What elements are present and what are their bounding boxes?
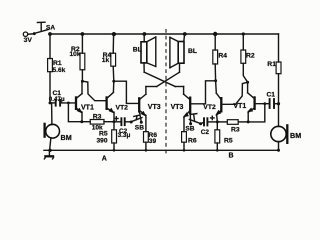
switch SA — [33, 22, 56, 35]
capacitor C2 right — [201, 116, 218, 136]
svg-text:VT3: VT3 — [171, 104, 184, 111]
resistor R4 1k — [102, 34, 116, 81]
transistor VT3 left — [139, 87, 161, 132]
svg-text:BL: BL — [133, 46, 142, 53]
capacitor C1 0.47u — [49, 90, 76, 107]
node junction R5 right/rail — [216, 149, 219, 152]
svg-text:3V: 3V — [24, 37, 33, 44]
node junction R2/VT1 collector — [81, 80, 84, 83]
wire cross connection left speaker to right VT3 — [144, 72, 175, 86]
node junction rail/SA/R1 — [48, 32, 52, 36]
node junction R1/C1/BM — [49, 101, 52, 104]
transistor VT2 right — [203, 81, 247, 122]
svg-text:R5: R5 — [224, 138, 233, 145]
node junction R6/rail — [145, 149, 148, 152]
wire terminal to switch — [28, 33, 34, 35]
microphone BM left — [45, 103, 72, 150]
resistor R2 right — [241, 32, 255, 82]
node battery terminal 3V — [23, 32, 32, 44]
svg-text:1k: 1k — [102, 57, 110, 64]
capacitor C2 3.3u polarized — [114, 117, 131, 139]
transistor VT1 — [76, 81, 94, 122]
node junction rail/R4 — [112, 32, 116, 36]
resistor R3 right — [217, 120, 248, 134]
resistor R6 39 — [144, 132, 158, 151]
svg-text:VT2: VT2 — [203, 104, 216, 111]
svg-text:R2: R2 — [246, 53, 255, 60]
node junction rail/BL left — [143, 32, 147, 36]
node junction R3/R5/VT2 emitter/C2 — [113, 120, 116, 123]
node junction VT1 emitter/R3 — [80, 120, 83, 123]
wire cross to left collector — [146, 86, 157, 88]
ground — [44, 150, 54, 159]
svg-text:C1: C1 — [267, 92, 276, 99]
node junction C1 right/R1/BM — [277, 102, 280, 105]
wire VT2 right collector to VT3 right base — [191, 81, 216, 104]
node junction VT1 right emitter/R3 — [247, 120, 250, 123]
svg-text:390: 390 — [97, 137, 108, 144]
wire feedback loop VT1 right — [248, 104, 265, 122]
resistor R4 right — [213, 32, 228, 81]
transistor VT3 right — [171, 87, 191, 132]
loudspeaker BL left — [133, 34, 156, 72]
resistor R3 10k — [82, 114, 114, 132]
svg-text:R4: R4 — [218, 52, 227, 59]
svg-text:C2: C2 — [201, 129, 210, 136]
wire cross connection right speaker to left VT3 — [157, 72, 180, 86]
svg-text:5.6k: 5.6k — [53, 67, 66, 74]
wire bottom ground rail — [44, 149, 279, 151]
transistor VT2 — [107, 81, 129, 122]
node junction BM/ground — [48, 149, 51, 152]
svg-text:B: B — [229, 153, 234, 160]
node junction R5/rail — [113, 149, 116, 152]
resistor R5 390 — [97, 122, 117, 151]
svg-text:VT2: VT2 — [116, 105, 129, 112]
wire top supply rail — [50, 33, 279, 35]
svg-text:SA: SA — [46, 25, 55, 32]
svg-text:SB: SB — [135, 125, 144, 132]
resistor R6 right — [182, 132, 197, 151]
svg-text:BM: BM — [290, 131, 301, 140]
svg-text:A: A — [102, 156, 107, 163]
wire VT1 collector to VT2 base — [82, 81, 106, 101]
svg-text:39: 39 — [149, 138, 157, 145]
wire cross to right collector — [175, 86, 183, 88]
node junction base feedback tap — [67, 102, 70, 105]
svg-text:R6: R6 — [188, 138, 197, 145]
resistor R2 10k — [70, 34, 85, 81]
node center divider dashed line — [165, 29, 167, 155]
node junction rail/BL right — [183, 32, 187, 36]
node junction R3/R5/VT2 emitter right — [216, 120, 219, 123]
microphone BM right — [271, 104, 301, 151]
wire SB to VT3 base — [140, 112, 142, 122]
svg-text:VT1: VT1 — [233, 103, 246, 110]
node junction rail/R2 — [81, 32, 85, 36]
svg-text:BL: BL — [188, 48, 197, 55]
svg-text:10k: 10k — [70, 51, 81, 58]
svg-text:R3: R3 — [231, 126, 240, 133]
capacitor C1 right — [255, 92, 278, 109]
node junction R6 right/rail — [183, 149, 186, 152]
switch SB right — [185, 114, 202, 133]
svg-text:0.47μ: 0.47μ — [49, 96, 65, 103]
svg-text:VT3: VT3 — [148, 104, 161, 111]
svg-text:3.3μ: 3.3μ — [118, 132, 131, 139]
svg-text:R1: R1 — [267, 61, 276, 68]
node junction R2 right/VT1 collector — [246, 81, 249, 84]
svg-text:VT1: VT1 — [81, 105, 94, 112]
node junction R4/VT2 collector/VT3 base — [112, 80, 115, 83]
wire feedback loop VT1 — [68, 103, 81, 122]
node junction base feedback tap right — [263, 102, 266, 105]
wire SB right to VT3 base — [189, 115, 191, 124]
resistor R5 right — [215, 122, 233, 150]
node junction BM right/rail — [277, 149, 280, 152]
wire VT2 collector to VT3 base — [114, 81, 139, 103]
svg-text:BM: BM — [61, 133, 72, 142]
svg-text:R3: R3 — [93, 114, 102, 121]
resistor R1 5.6k — [48, 34, 66, 103]
loudspeaker BL right — [170, 34, 197, 72]
transistor VT1 right — [233, 82, 254, 122]
resistor R1 right — [267, 34, 281, 104]
node junction R4 right/VT2 collector — [214, 79, 217, 82]
switch SB left — [130, 115, 144, 131]
